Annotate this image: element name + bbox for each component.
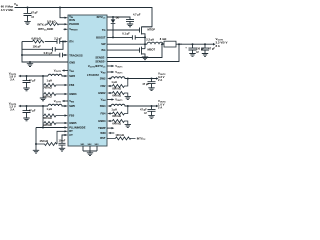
svg-text:SW2: SW2 [100, 76, 106, 80]
svg-text:RST: RST [100, 136, 106, 140]
svg-text:TG: TG [102, 28, 106, 32]
transistor MBOT [140, 47, 146, 57]
node VIN3 to VOUT1 stub [65, 70, 69, 72]
svg-text:650 kΩ: 650 kΩ [43, 116, 52, 120]
node EXTVCC to VOUT1 stub [107, 65, 112, 67]
wire GND bus [22, 42, 68, 63]
inductor L2 1uH [111, 77, 157, 79]
wire IC bottom SS pins to ground [83, 146, 97, 153]
wire SW [107, 37, 147, 48]
svg-text:LTC3372: LTC3372 [87, 73, 99, 77]
node VIN2 to VOUT1 stub [107, 71, 112, 73]
svg-text:47 µF: 47 µF [142, 82, 149, 86]
wire ITH compensation [22, 41, 33, 43]
svg-text:100 kΩ: 100 kΩ [115, 133, 124, 137]
resistor FB2 top 806k [111, 79, 128, 88]
svg-text:SW5: SW5 [69, 104, 75, 108]
capacitor TRACK/SS 0.01uF [21, 54, 23, 56]
svg-text:2 A: 2 A [158, 106, 162, 110]
svg-text:SW3: SW3 [69, 74, 75, 78]
wire VIN rail [15, 8, 153, 27]
wire PLLIN/MODE [36, 127, 65, 129]
transistor MTOP [140, 27, 153, 38]
node WDI stub [111, 132, 115, 134]
svg-text:453 kΩ: 453 kΩ [40, 139, 49, 143]
svg-text:150 pF: 150 pF [33, 44, 42, 48]
svg-text:RUN: RUN [69, 18, 75, 22]
IC U1 LTC3372 body [68, 15, 107, 146]
inductor L5 1uH [48, 104, 65, 106]
svg-text:GND4: GND4 [98, 119, 106, 123]
svg-text:8 mΩ: 8 mΩ [160, 37, 167, 41]
svg-text:1 µH: 1 µH [111, 107, 117, 111]
wire VOUT5 rail [21, 105, 49, 107]
svg-text:768 kΩ: 768 kΩ [43, 86, 52, 90]
capacitor ITH 2.2nF series [57, 39, 60, 43]
svg-text:0.1 µF: 0.1 µF [122, 31, 130, 35]
svg-text:BG: BG [102, 48, 106, 52]
svg-text:TRACK/SS: TRACK/SS [69, 53, 83, 57]
svg-text:100 kΩ: 100 kΩ [47, 20, 56, 24]
svg-text:SENSE–: SENSE– [95, 55, 106, 59]
svg-text:SENSE+: SENSE+ [95, 59, 106, 63]
svg-text:940 kΩ: 940 kΩ [43, 123, 52, 127]
junction input cap [27, 7, 29, 9]
svg-text:WDI: WDI [100, 131, 105, 135]
inductor L4 1uH [48, 74, 65, 76]
capacitor CIN 47uF x2 [24, 8, 32, 22]
capacitor 4.7uF INTVCC [126, 20, 134, 24]
wire VOUT1 rail [179, 43, 213, 45]
svg-text:FB5: FB5 [69, 113, 75, 117]
resistor FB3 bottom 649k [43, 85, 65, 98]
svg-text:GND5: GND5 [69, 121, 77, 125]
svg-text:2 A: 2 A [10, 77, 14, 81]
svg-text:47 µF: 47 µF [31, 10, 38, 14]
resistor RSENSE 8mohm [163, 43, 182, 45]
IC right pin labels [88, 15, 107, 140]
resistor RT 453k [36, 131, 65, 145]
svg-text:649 kΩ: 649 kΩ [112, 94, 121, 98]
svg-text:FB2: FB2 [101, 84, 107, 88]
svg-text:DB: DB [116, 17, 120, 20]
svg-text:PLLIN/MODE: PLLIN/MODE [69, 125, 86, 129]
resistor FB4 bottom 649k [111, 120, 128, 125]
resistor FB5 bottom 940k [43, 116, 65, 128]
svg-text:2.2 µH: 2.2 µH [146, 38, 154, 42]
svg-text:649 kΩ: 649 kΩ [112, 122, 121, 126]
svg-text:1 µH: 1 µH [47, 78, 53, 82]
ground main [29, 61, 31, 63]
wire SENSE- [107, 44, 162, 57]
svg-text:2 A: 2 A [10, 107, 14, 111]
svg-text:845 kΩ: 845 kΩ [112, 114, 121, 118]
capacitor 47uF x2 out4 [148, 106, 156, 115]
IC left pin labels [69, 15, 86, 137]
svg-text:47 µF: 47 µF [208, 47, 215, 51]
resistor FB3 top 768k [43, 76, 65, 87]
inductor L3 1uH [111, 104, 157, 106]
svg-text:ITH: ITH [69, 39, 73, 43]
svg-text:2.2 nF: 2.2 nF [54, 37, 62, 41]
wire BOOST with bootstrap cap 0.1uF [107, 36, 145, 38]
svg-text:RT: RT [69, 129, 73, 133]
capacitor COUT1b 47uF [201, 44, 209, 53]
inductor L1 2.2uH [147, 42, 163, 44]
svg-text:47 µF: 47 µF [29, 108, 36, 112]
node VIN5 to VOUT1 stub [65, 100, 69, 102]
svg-text:FB3: FB3 [69, 83, 75, 87]
resistor RST pullup 100k [107, 137, 136, 140]
svg-text:GND2: GND2 [98, 91, 106, 95]
svg-text:1 µH: 1 µH [47, 107, 53, 111]
svg-text:4.7 µF: 4.7 µF [133, 13, 141, 17]
capacitor ITH 150pF parallel branch [22, 42, 63, 50]
resistor ITH 6.98k [33, 40, 44, 43]
svg-text:806 kΩ: 806 kΩ [112, 87, 121, 91]
wire INTVCC decoupling [107, 17, 130, 20]
wire SENSE+ [107, 44, 179, 61]
resistor FB5 top 650k [43, 106, 65, 117]
wire BG [107, 49, 140, 51]
wire VOUT3 rail [21, 75, 49, 77]
svg-text:SW: SW [101, 42, 106, 46]
svg-text:BOOST: BOOST [96, 35, 106, 39]
svg-text:10 nF: 10 nF [59, 139, 66, 143]
svg-text:GND: GND [69, 60, 75, 64]
svg-text:CT: CT [69, 133, 73, 137]
wire TG [107, 29, 140, 31]
capacitor 47uF out3 [23, 76, 31, 88]
svg-text:1 µH: 1 µH [111, 80, 117, 84]
svg-text:0.01 µF: 0.01 µF [44, 51, 53, 55]
IC bottom pin labels [81, 144, 100, 146]
node VIN4 to VOUT1 stub [107, 99, 112, 101]
svg-text:6.98 kΩ: 6.98 kΩ [32, 37, 41, 41]
svg-text:SW4: SW4 [100, 104, 106, 108]
wire VIN to IC VIN/RUN [60, 8, 65, 18]
svg-text:GND3: GND3 [69, 92, 77, 96]
svg-text:MTOP: MTOP [148, 28, 156, 32]
resistor FB4 top 845k [111, 106, 128, 115]
svg-text:47 µF: 47 µF [29, 78, 36, 82]
capacitor 47uF out2 [148, 79, 156, 88]
junction vin drop [59, 7, 61, 9]
svg-text:MBOT: MBOT [148, 48, 156, 52]
svg-text:4.5 V Min: 4.5 V Min [1, 8, 14, 12]
svg-text:PGOOD: PGOOD [69, 22, 79, 26]
svg-text:TEMP: TEMP [98, 126, 106, 130]
node TEMP stub [107, 127, 112, 129]
svg-text:FB4: FB4 [101, 111, 107, 115]
resistor pullup 100k PGOOD [46, 23, 65, 26]
capacitor CT 10nF [59, 135, 66, 148]
capacitor 47uF out5 [23, 106, 31, 118]
resistor FB2 bottom 649k [111, 92, 128, 97]
svg-text:2 A: 2 A [158, 78, 162, 82]
